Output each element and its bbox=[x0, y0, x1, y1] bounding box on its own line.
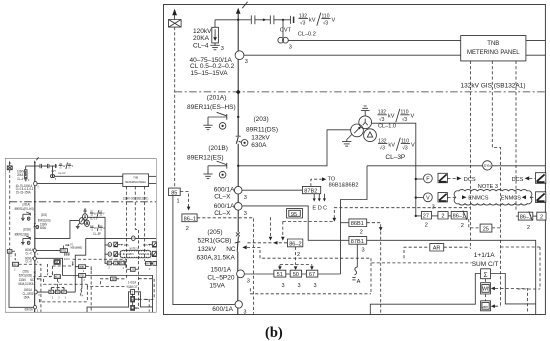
wire dashed 86-2 to 51/50/67 bbox=[295, 247, 297, 265]
svg-text:2: 2 bbox=[441, 214, 444, 220]
wire dashed boundary left vertical bbox=[174, 27, 176, 188]
meter F with transducer bbox=[415, 178, 417, 180]
wavetrap box with X bbox=[169, 20, 182, 28]
CT 600/1A bottom bbox=[235, 301, 242, 308]
capacitor C1 of CVT bbox=[238, 19, 251, 21]
test link A bbox=[356, 244, 358, 267]
relay row 86 / 2 right bbox=[516, 215, 518, 217]
wire dashed meter column bbox=[485, 279, 487, 283]
wire main bus lower bbox=[237, 144, 239, 233]
wire dashed 86-1 across bus bbox=[197, 218, 254, 314]
svg-text:600/1A: 600/1A bbox=[212, 306, 233, 313]
thumbnail (a): scaled copy of schematic bbox=[5, 157, 156, 313]
svg-text:2: 2 bbox=[461, 223, 464, 229]
relay 25 bbox=[480, 224, 492, 232]
surge arrester 120kV 20KA CL-4 bbox=[214, 20, 216, 28]
svg-text:1+1/1A: 1+1/1A bbox=[474, 252, 495, 259]
svg-text:METERING PANEL: METERING PANEL bbox=[467, 50, 520, 56]
wire dashed 95 route bbox=[283, 220, 335, 222]
svg-text:Σ: Σ bbox=[483, 272, 487, 279]
svg-text:50: 50 bbox=[293, 272, 299, 278]
svg-text:3: 3 bbox=[282, 283, 285, 289]
figure border bbox=[164, 5, 546, 315]
cloud ENMCS bbox=[454, 190, 532, 206]
svg-text:TNB: TNB bbox=[487, 41, 499, 47]
wire dashed right control loop bbox=[501, 246, 541, 248]
wire dash-dot GIS boundary bbox=[175, 91, 545, 93]
wire bus tap to arrester bbox=[215, 19, 238, 21]
svg-text:NOTE 3: NOTE 3 bbox=[478, 184, 498, 190]
svg-text:3: 3 bbox=[289, 44, 292, 50]
svg-text:132kV: 132kV bbox=[251, 134, 270, 141]
svg-text:3: 3 bbox=[298, 283, 301, 289]
power transformer 3-winding bbox=[359, 116, 372, 129]
wire dashed TO 86B1&86B2 bbox=[311, 179, 322, 186]
svg-text:2: 2 bbox=[540, 215, 543, 221]
wire main bus bottom bbox=[237, 252, 239, 315]
svg-text:3: 3 bbox=[244, 195, 247, 201]
relay row 27 / 2 / 86-3 bbox=[415, 215, 417, 217]
svg-text:ENMCS: ENMCS bbox=[468, 196, 488, 202]
svg-text:87B2: 87B2 bbox=[304, 188, 317, 194]
relay 86-2 bbox=[287, 239, 302, 247]
synchro check SYN bbox=[483, 161, 492, 170]
wire SYN line to right edge bbox=[367, 165, 545, 167]
relay 87B1 bbox=[349, 237, 367, 245]
wire dashed panel drop 2 with jog bbox=[492, 61, 500, 308]
wire metering zigzag bbox=[341, 166, 368, 274]
svg-text:87B1: 87B1 bbox=[351, 239, 364, 245]
wire 85 down to bottom CT bbox=[173, 196, 235, 305]
svg-text:CL–3P: CL–3P bbox=[385, 154, 405, 161]
wire CT2 to 87B1 and right edge bbox=[242, 206, 536, 315]
CVT transformer circles bbox=[282, 20, 284, 38]
svg-text:89R11(DS): 89R11(DS) bbox=[246, 126, 278, 133]
wire CT3 row through relays bbox=[244, 273, 340, 275]
svg-text:SUM C/T: SUM C/T bbox=[472, 261, 499, 268]
wire summation loop bbox=[370, 274, 480, 315]
wire transformer secondary riser bbox=[372, 123, 416, 216]
svg-text:2: 2 bbox=[186, 226, 189, 232]
value label 132/sqrt3 kV 110/sqrt3 V (VT1) bbox=[378, 109, 415, 123]
wire dashed right rail bbox=[501, 289, 528, 314]
svg-text:2: 2 bbox=[425, 222, 428, 228]
svg-text:67: 67 bbox=[309, 272, 315, 278]
node A incoming-line continuation arrow bbox=[172, 9, 177, 15]
svg-text:CL–0.2: CL–0.2 bbox=[298, 31, 316, 37]
main bus continuation arrow bbox=[236, 8, 241, 14]
svg-text:CL–1.0: CL–1.0 bbox=[378, 124, 396, 130]
TNB metering panel box bbox=[461, 36, 526, 61]
value label 132/sqrt3 kV 110/sqrt3 V (CVT) bbox=[299, 13, 336, 27]
svg-text:132kV GIS (SB132A1): 132kV GIS (SB132A1) bbox=[461, 83, 526, 90]
wire panel stubs to border bbox=[526, 40, 545, 42]
wire dashed panel drop 1 bbox=[469, 61, 471, 249]
svg-text:3: 3 bbox=[243, 309, 246, 315]
svg-text:2: 2 bbox=[527, 225, 530, 231]
svg-text:ENMCS: ENMCS bbox=[501, 196, 521, 202]
svg-text:85: 85 bbox=[171, 190, 177, 196]
svg-text:51: 51 bbox=[277, 272, 283, 278]
svg-text:V: V bbox=[426, 196, 430, 202]
svg-text:varh: varh bbox=[482, 305, 488, 309]
svg-text:600/1A: 600/1A bbox=[214, 203, 235, 210]
svg-text:132kV: 132kV bbox=[198, 246, 217, 253]
wire dashed trip lines to GCB bbox=[270, 217, 272, 237]
svg-text:2: 2 bbox=[297, 252, 300, 258]
svg-text:CL–X: CL–X bbox=[214, 210, 231, 217]
svg-text:86–1: 86–1 bbox=[453, 214, 465, 220]
svg-text:F: F bbox=[426, 177, 430, 183]
relay 95 double box bbox=[287, 209, 303, 218]
svg-text:Wh: Wh bbox=[482, 287, 490, 293]
svg-text:E: E bbox=[312, 206, 316, 212]
svg-text:95: 95 bbox=[291, 212, 297, 218]
wire CVT secondary to metering panel bbox=[288, 40, 460, 42]
svg-text:C: C bbox=[323, 206, 327, 212]
wire main 132kV bus upper bbox=[237, 13, 239, 136]
svg-text:20KA: 20KA bbox=[193, 35, 210, 42]
svg-text:(201A): (201A) bbox=[207, 94, 227, 101]
svg-text:86–2: 86–2 bbox=[289, 241, 301, 247]
relay AR bbox=[404, 247, 430, 258]
wire dashed 85 to 86-1 bbox=[180, 192, 188, 207]
svg-text:D: D bbox=[318, 206, 322, 212]
svg-text:SYN: SYN bbox=[484, 164, 491, 168]
svg-text:89ER12(ES): 89ER12(ES) bbox=[187, 155, 224, 162]
svg-text:3: 3 bbox=[221, 46, 224, 52]
PT element at line end bbox=[290, 16, 292, 24]
svg-text:120kV: 120kV bbox=[193, 28, 212, 35]
wire CT1 to 87B2 bbox=[242, 189, 302, 191]
svg-text:600/1A: 600/1A bbox=[214, 187, 235, 194]
ground transformer neutral bbox=[364, 111, 366, 116]
svg-text:AR: AR bbox=[433, 246, 441, 252]
wire dashed 86B1 drop bbox=[367, 223, 381, 228]
svg-text:(b): (b) bbox=[265, 325, 283, 341]
svg-text:52R1(GCB): 52R1(GCB) bbox=[198, 238, 232, 245]
slash continuation tick bbox=[242, 2, 247, 8]
svg-text:(203): (203) bbox=[254, 116, 269, 123]
svg-text:CL–5P20: CL–5P20 bbox=[207, 275, 234, 282]
meter Wh bbox=[481, 283, 491, 294]
svg-text:3: 3 bbox=[362, 248, 365, 254]
relay 50 bbox=[290, 270, 301, 277]
svg-text:89ER11(ES–HS): 89ER11(ES–HS) bbox=[187, 104, 236, 111]
wire dashed panel drop 3 bbox=[515, 61, 517, 212]
CT secondary taps E D C bbox=[313, 194, 315, 199]
svg-text:630A,31.5KA: 630A,31.5KA bbox=[197, 254, 236, 261]
ground transformer tank bbox=[347, 135, 352, 140]
relay 86-1 bbox=[182, 214, 197, 222]
svg-text:630A: 630A bbox=[251, 142, 267, 149]
svg-text:27: 27 bbox=[423, 214, 429, 220]
svg-text:DCS: DCS bbox=[512, 177, 524, 183]
relay 86B1 bbox=[341, 222, 349, 224]
wire and junction bbox=[255, 19, 270, 21]
ground under arrester bbox=[214, 43, 216, 45]
wire dashed 86-3 to 25 bbox=[469, 219, 480, 228]
svg-text:1: 1 bbox=[177, 199, 180, 205]
svg-text:CL–4: CL–4 bbox=[193, 43, 209, 50]
svg-text:150/1A: 150/1A bbox=[211, 266, 232, 273]
svg-text:15VA: 15VA bbox=[209, 282, 225, 289]
wire bus tap to power transformer bbox=[238, 130, 351, 166]
svg-text:3: 3 bbox=[314, 283, 317, 289]
svg-text:2: 2 bbox=[360, 230, 363, 236]
svg-text:3: 3 bbox=[247, 278, 250, 284]
svg-text:15–15–15VA: 15–15–15VA bbox=[191, 70, 229, 77]
svg-text:86–1: 86–1 bbox=[184, 216, 196, 222]
svg-text:CL–X: CL–X bbox=[214, 194, 231, 201]
svg-text:86B1: 86B1 bbox=[351, 221, 364, 227]
relay 85 bbox=[169, 188, 181, 196]
relay 67 bbox=[306, 270, 317, 277]
meter V with transducer bbox=[415, 196, 417, 198]
value label 132/sqrt3 kV 110/sqrt3 V (VT2) bbox=[378, 138, 415, 152]
relay 51 bbox=[274, 270, 286, 277]
capacitor C2 of CVT bbox=[269, 15, 271, 24]
meter varh bbox=[481, 301, 491, 311]
svg-text:25: 25 bbox=[483, 227, 489, 233]
svg-text:CVT: CVT bbox=[280, 28, 292, 34]
svg-text:DCS: DCS bbox=[464, 177, 476, 183]
svg-text:NC: NC bbox=[226, 246, 236, 253]
svg-text:3: 3 bbox=[245, 59, 248, 65]
node bus boundary diamond bbox=[236, 89, 241, 94]
wire dashed bottom rail bbox=[250, 288, 371, 294]
svg-text:(201B): (201B) bbox=[208, 145, 228, 152]
svg-text:86B1&86B2: 86B1&86B2 bbox=[329, 182, 359, 188]
relay 87B2 bbox=[302, 186, 320, 193]
multi-ratio CT 40-75-150/1A bbox=[235, 51, 244, 60]
svg-text:A: A bbox=[357, 279, 361, 285]
svg-text:(205): (205) bbox=[207, 229, 222, 236]
svg-text:3: 3 bbox=[244, 211, 247, 217]
